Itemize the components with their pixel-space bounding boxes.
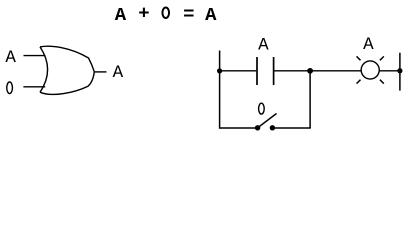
wire (switch to riser) [272, 127, 310, 129]
title zero (drawn) [162, 7, 169, 18]
svg-text:+: + [138, 2, 149, 24]
svg-text:A: A [258, 36, 269, 56]
wire (left rail L1) [219, 51, 221, 129]
lamp rays [357, 56, 384, 83]
svg-text:A: A [115, 4, 127, 26]
node (junction dot on left rail) [217, 68, 222, 73]
wire (OR gate top input) [24, 55, 46, 57]
svg-text:A: A [363, 35, 374, 55]
switch 0 (normally-open lever) [255, 114, 277, 131]
lamp A [361, 61, 379, 79]
svg-text:A: A [113, 63, 124, 83]
node (dot on right rail) [397, 68, 402, 73]
wire (contact to junction) [274, 70, 362, 72]
wire (OR gate output) [94, 71, 106, 73]
node (junction of rungs) [307, 68, 313, 74]
wire (right rail L2) [399, 53, 401, 91]
wire (bottom rung, rail to switch) [220, 127, 258, 129]
contact A (normally-open) [257, 57, 274, 85]
svg-text:A: A [205, 4, 217, 26]
svg-text:=: = [183, 3, 194, 25]
wire (lamp to right rail) [379, 70, 400, 72]
or-gate (A + 0) [40, 46, 94, 94]
label 0 (switch) [259, 103, 265, 114]
wire (riser from bottom rung to junction) [309, 71, 311, 128]
wire (OR gate bottom input) [23, 86, 45, 88]
label 0 (OR gate bottom input) [7, 82, 13, 94]
wire (top rung, rail to contact) [220, 70, 257, 72]
svg-text:A: A [5, 48, 16, 68]
